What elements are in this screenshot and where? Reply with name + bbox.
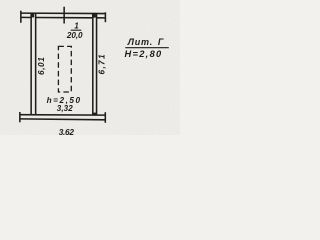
wire left wall outer line <box>30 13 32 115</box>
wire top wall inner line middle <box>35 17 93 19</box>
wire top wall inner line left overhang <box>21 16 32 18</box>
svg-text:Лит.: Лит. <box>127 37 153 47</box>
wire fraction bar under room number <box>71 29 82 31</box>
svg-text:1: 1 <box>74 22 78 31</box>
svg-text:20,0: 20,0 <box>66 31 83 40</box>
node top-left wall end cap <box>20 11 22 23</box>
wire bottom wall inner line <box>20 114 106 116</box>
node cellar hatch dashed rectangle <box>58 46 71 92</box>
svg-text:6,01: 6,01 <box>36 57 46 75</box>
svg-text:3,32: 3,32 <box>57 104 73 113</box>
wire top wall inner line right overhang <box>96 17 105 19</box>
svg-text:Н=2,80: Н=2,80 <box>124 49 162 59</box>
node left wall top junction fill <box>31 13 34 18</box>
node bottom-left wall end cap <box>19 112 21 122</box>
svg-text:Г: Г <box>158 37 164 47</box>
svg-text:6,71: 6,71 <box>97 53 107 74</box>
wire right wall inner line <box>92 13 94 115</box>
svg-text:3,62: 3,62 <box>59 127 75 135</box>
node top-right wall end cap <box>104 12 106 22</box>
node right wall top junction fill <box>93 13 96 18</box>
paper background <box>0 0 180 135</box>
wire fraction bar of building label <box>125 47 169 49</box>
wire right wall outer line <box>96 13 98 115</box>
wire bottom wall outer line <box>20 118 106 121</box>
paper grain <box>0 0 1 1</box>
node dimension tick on top wall <box>63 7 65 24</box>
node bottom-right wall end cap <box>104 112 106 123</box>
wire top wall outer line <box>21 12 106 14</box>
node right wall bottom junction fill <box>93 113 96 115</box>
wire left wall inner line <box>35 13 37 115</box>
